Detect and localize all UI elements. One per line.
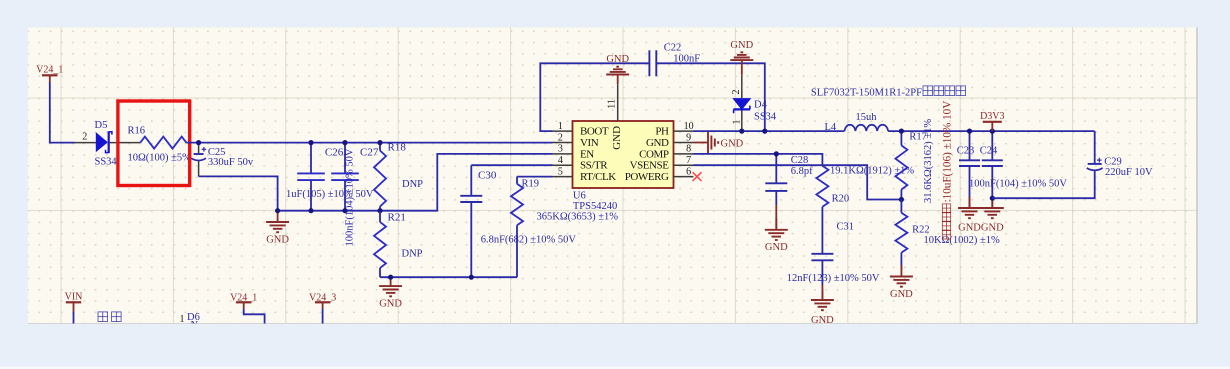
svg-text:GND: GND [721, 139, 744, 150]
inductor L4 [825, 112, 889, 133]
svg-text:6: 6 [686, 166, 691, 177]
svg-text:VIN: VIN [65, 292, 83, 303]
wire GND bus bottom [380, 276, 517, 278]
svg-text:31.6KΩ(3162) ±1%: 31.6KΩ(3162) ±1% [923, 119, 934, 203]
capacitor C27 [331, 143, 379, 247]
resistor R20 [816, 166, 914, 254]
power port V24_3 (bottom) [309, 292, 336, 323]
resistor R17 [895, 119, 934, 203]
node [899, 129, 904, 134]
resistor R21 [374, 211, 423, 278]
node [990, 196, 995, 201]
svg-text:1: 1 [180, 314, 185, 325]
svg-text:4: 4 [558, 155, 563, 166]
svg-text:8: 8 [686, 144, 691, 155]
svg-text:COMP: COMP [639, 148, 669, 160]
node [342, 208, 347, 213]
svg-text:GND: GND [981, 222, 1004, 233]
svg-text:V24_1: V24_1 [36, 65, 63, 76]
svg-text:R21: R21 [388, 211, 406, 223]
capacitor C26 [286, 143, 374, 211]
svg-text:10: 10 [684, 121, 694, 132]
svg-text:U6: U6 [573, 190, 586, 201]
svg-text:GND: GND [890, 289, 913, 300]
svg-text:BOOT: BOOT [580, 126, 609, 138]
svg-text:SS/TR: SS/TR [580, 160, 608, 172]
svg-text:6.8nF(682) ±10% 50V: 6.8nF(682) ±10% 50V [481, 235, 577, 246]
capacitor C23 [957, 131, 980, 208]
node [377, 140, 382, 145]
svg-text:GND: GND [730, 40, 753, 51]
svg-text:C23: C23 [957, 145, 975, 156]
svg-text:SS34: SS34 [754, 111, 777, 122]
svg-text:6.8pf: 6.8pf [791, 166, 813, 177]
annotation SLF7032T [811, 86, 966, 99]
svg-text:15uh: 15uh [856, 112, 878, 123]
annotation chip capacitor note [942, 101, 954, 239]
svg-text:GND: GND [646, 137, 669, 149]
power port V24_1 [36, 65, 63, 82]
resistor R19 [481, 177, 619, 278]
svg-text::10uF(106) ±10% 10V: :10uF(106) ±10% 10V [942, 101, 954, 203]
ground [379, 275, 402, 310]
svg-text:C31: C31 [837, 222, 855, 233]
svg-text:RT/CLK: RT/CLK [580, 171, 616, 183]
wire [199, 176, 278, 210]
capacitor C31 [787, 222, 880, 301]
node [762, 129, 767, 134]
svg-text:3: 3 [558, 144, 563, 155]
svg-text:330uF 50v: 330uF 50v [208, 157, 254, 168]
svg-text:GND: GND [611, 126, 623, 150]
wire GND bus [278, 154, 553, 211]
node [899, 197, 904, 202]
svg-text:VSENSE: VSENSE [630, 160, 670, 172]
resistor R18 [374, 142, 423, 211]
svg-text:D4: D4 [754, 99, 768, 110]
ground (D4) [730, 40, 753, 75]
svg-text:C22: C22 [664, 43, 682, 54]
node [990, 129, 995, 134]
pin 1 BOOT [553, 121, 609, 138]
IC U6 TPS54240 body [573, 121, 674, 212]
svg-text:1: 1 [732, 120, 743, 125]
svg-text:EN: EN [580, 148, 594, 160]
svg-text:2: 2 [558, 132, 563, 143]
svg-text:TPS54240: TPS54240 [573, 201, 617, 212]
svg-text:12nF(123) ±10% 50V: 12nF(123) ±10% 50V [787, 273, 880, 284]
ground (C31) [811, 289, 834, 326]
svg-text:D3V3: D3V3 [980, 111, 1004, 122]
no-ERC marker pin 6 [693, 172, 702, 181]
pin 7 VSENSE [630, 155, 694, 172]
node [308, 208, 313, 213]
capacitor C24 [969, 131, 1067, 208]
svg-text:GND: GND [606, 54, 629, 65]
capacitor C22 [649, 43, 700, 77]
resistor R22 [895, 200, 1000, 271]
pin 11 GND (top) [607, 84, 623, 150]
ground (R22) [890, 265, 913, 300]
svg-text:R19: R19 [522, 178, 540, 189]
svg-text:GND: GND [958, 222, 981, 233]
node [308, 140, 313, 145]
svg-text:C27: C27 [360, 147, 379, 159]
pin 9 GND [646, 132, 693, 149]
svg-text:PH: PH [655, 126, 669, 138]
wire PH net [694, 130, 845, 132]
pin 6 POWERG [625, 166, 694, 183]
node VIN/C25 [196, 140, 201, 145]
selection rectangle [118, 101, 190, 186]
ground (C24) [981, 197, 1004, 234]
svg-text:365KΩ(3653) ±1%: 365KΩ(3653) ±1% [537, 212, 619, 223]
power port VIN (bottom) [65, 292, 83, 324]
svg-text:R18: R18 [388, 142, 407, 154]
svg-text:7: 7 [686, 155, 691, 166]
diode D6 (partial) [180, 312, 200, 331]
svg-text:L4: L4 [825, 122, 837, 133]
wire D3V3 net [888, 130, 1095, 132]
ground (C28) [765, 219, 788, 254]
pin 10 PH [655, 121, 693, 138]
svg-text:GND: GND [379, 298, 402, 309]
svg-text:C24: C24 [980, 145, 998, 156]
resistor R16 [128, 126, 192, 164]
svg-text:R20: R20 [832, 194, 850, 205]
svg-text:9: 9 [686, 132, 691, 143]
svg-text:V24_1: V24_1 [230, 292, 257, 303]
svg-text:100nF(104) ±10% 50V: 100nF(104) ±10% 50V [344, 148, 355, 246]
ground (C23) [958, 197, 981, 234]
svg-text:5: 5 [558, 166, 563, 177]
pin 4 SS/TR [553, 155, 609, 172]
svg-text:10Ω(100) ±5%: 10Ω(100) ±5% [128, 153, 192, 164]
svg-text:1uF(105) ±10% 50V: 1uF(105) ±10% 50V [286, 189, 374, 200]
node [469, 275, 474, 280]
wire BOOT loop [540, 63, 765, 131]
svg-text:SLF7032T-150M1R1-2PF: SLF7032T-150M1R1-2PF [811, 88, 922, 99]
pin 2 VIN [553, 132, 599, 149]
capacitor C28 [765, 154, 813, 230]
svg-text:C30: C30 [478, 170, 497, 182]
svg-text:V24_3: V24_3 [309, 292, 336, 303]
pin 5 RT/CLK [553, 166, 617, 183]
node [967, 129, 972, 134]
svg-text:C26: C26 [325, 147, 344, 159]
svg-text:SS34: SS34 [95, 157, 118, 168]
svg-text:10KΩ(1002) ±1%: 10KΩ(1002) ±1% [924, 235, 1001, 246]
node [377, 208, 382, 213]
svg-text:2: 2 [731, 90, 742, 95]
svg-text:DNP: DNP [402, 179, 423, 190]
wire VSENSE net [694, 165, 902, 199]
svg-text:VIN: VIN [580, 137, 599, 149]
node [774, 151, 779, 156]
svg-text:100nF(104) ±10% 50V: 100nF(104) ±10% 50V [969, 179, 1067, 190]
wire VIN net [186, 142, 552, 144]
svg-text:220uF 10V: 220uF 10V [1105, 167, 1153, 178]
capacitor C30 [460, 165, 552, 277]
ground (pin 9) [694, 132, 744, 153]
svg-text:D5: D5 [95, 120, 108, 131]
wire [50, 82, 75, 143]
svg-text:C29: C29 [1104, 156, 1122, 167]
svg-text:GND: GND [266, 234, 289, 245]
node [388, 275, 393, 280]
svg-text:2: 2 [82, 131, 87, 142]
diode D5 [75, 120, 141, 168]
svg-text:R16: R16 [128, 126, 146, 137]
svg-text:DNP: DNP [402, 249, 423, 260]
ground (pin 11) [606, 54, 629, 84]
capacitor C29 [992, 131, 1153, 198]
ground [266, 211, 289, 246]
diode D4 [731, 75, 777, 131]
capacitor C25 [191, 143, 254, 177]
node [739, 129, 744, 134]
svg-text:R22: R22 [912, 224, 930, 235]
svg-text:11: 11 [607, 99, 618, 109]
svg-text:1: 1 [558, 121, 563, 132]
annotation self-purchase [98, 312, 121, 322]
svg-text:GND: GND [765, 242, 788, 253]
power port D3V3 [980, 111, 1004, 131]
svg-text:GND: GND [811, 315, 834, 326]
node [275, 208, 280, 213]
wire COMP net [694, 154, 823, 166]
power port V24_1 (bottom) [230, 292, 265, 323]
node [342, 140, 347, 145]
pin 3 EN [553, 144, 595, 161]
svg-text:100nF: 100nF [673, 53, 700, 64]
pin 8 COMP [639, 144, 693, 161]
svg-text:POWERG: POWERG [625, 171, 669, 183]
